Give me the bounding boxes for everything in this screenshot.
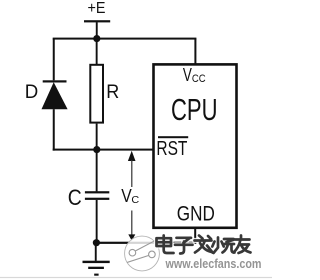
wire RST horizontal bbox=[53, 149, 154, 151]
svg-text:D: D bbox=[25, 81, 39, 103]
wire capacitor top bbox=[96, 150, 98, 191]
wire capacitor bottom bbox=[96, 200, 98, 243]
svg-text:V: V bbox=[183, 65, 192, 85]
watermark logo circle bbox=[125, 236, 160, 271]
op block CPU U1 bbox=[154, 64, 237, 227]
svg-text:www.elecfans.com: www.elecfans.com bbox=[165, 256, 262, 271]
wire rail to node bbox=[96, 22, 98, 38]
svg-text:C: C bbox=[68, 185, 82, 210]
resistor R bbox=[90, 65, 103, 123]
wire to diode cathode bbox=[53, 39, 55, 81]
node junction bottom bbox=[93, 239, 100, 246]
wire resistor top bbox=[96, 39, 98, 65]
wire GND pin bbox=[194, 228, 196, 243]
svg-text:RST: RST bbox=[156, 138, 187, 160]
svg-text:CPU: CPU bbox=[171, 93, 218, 127]
wire ground stub bbox=[95, 244, 97, 261]
supply rail bar bbox=[84, 20, 110, 22]
pin label RST overline bbox=[158, 136, 188, 138]
annotation arrow Vc bottom bbox=[131, 211, 133, 236]
wire diode anode down bbox=[53, 109, 55, 150]
annotation arrow Vc top bbox=[128, 151, 136, 161]
wire to Vcc pin bbox=[194, 39, 196, 65]
svg-text:CC: CC bbox=[192, 73, 206, 85]
wire resistor bottom bbox=[96, 124, 98, 150]
svg-text:C: C bbox=[131, 194, 139, 206]
ground bbox=[83, 261, 110, 263]
node junction top bbox=[93, 35, 100, 42]
svg-text:GND: GND bbox=[177, 201, 215, 225]
wire bottom horizontal bbox=[95, 242, 196, 244]
edge artifact bottom bbox=[0, 277, 272, 278]
svg-text:R: R bbox=[106, 81, 119, 103]
svg-text:+E: +E bbox=[88, 0, 106, 17]
watermark text CJK bbox=[157, 236, 251, 254]
wire top horizontal bbox=[53, 38, 197, 40]
node junction mid bbox=[93, 146, 100, 153]
diode D bbox=[43, 80, 67, 82]
capacitor C bbox=[85, 191, 109, 193]
